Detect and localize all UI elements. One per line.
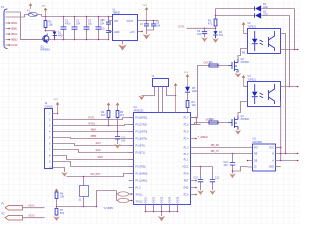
svg-text:10u: 10u bbox=[88, 23, 93, 26]
svg-text:P1.0(AIN0): P1.0(AIN0) bbox=[136, 173, 148, 176]
svg-text:104: 104 bbox=[156, 25, 161, 28]
wire J2-3 to MCU bbox=[57, 125, 134, 126]
svg-text:470u: 470u bbox=[65, 23, 71, 26]
svg-text:DE: DE bbox=[254, 160, 258, 163]
RS485 U5 box bbox=[253, 144, 276, 171]
svg-text:RE: RE bbox=[254, 153, 258, 156]
svg-text:P3.3(INT1): P3.3(INT1) bbox=[136, 138, 148, 141]
ground below Q3 bbox=[235, 130, 241, 135]
svg-text:485A2: 485A2 bbox=[11, 33, 19, 36]
wire J2-9 to MCU bbox=[57, 162, 134, 167]
wire opto U2 pin2 to Q2 drain bbox=[238, 49, 248, 60]
svg-text:5V1: 5V1 bbox=[219, 34, 224, 37]
svg-text:GND: GND bbox=[183, 187, 189, 190]
svg-text:GND5: GND5 bbox=[177, 196, 180, 203]
svg-text:10K: 10K bbox=[60, 196, 65, 199]
optocoupler U3 bbox=[248, 82, 281, 107]
svg-text:P1.2: P1.2 bbox=[184, 153, 190, 156]
svg-text:104: 104 bbox=[100, 23, 105, 26]
wire MCU to gate bus bbox=[191, 124, 201, 126]
power port VCC pullup1 bbox=[108, 105, 110, 109]
svg-text:5K1: 5K1 bbox=[60, 212, 65, 215]
svg-text:GND: GND bbox=[269, 166, 275, 169]
wire LED D2 anode bbox=[261, 8, 294, 10]
svg-text:VCC1: VCC1 bbox=[182, 166, 189, 169]
wire MCU to RS485 RO bbox=[191, 147, 253, 149]
ground VCC caps bbox=[143, 34, 151, 39]
capacitor C5 C6 stack bbox=[108, 17, 110, 40]
capacitor C10 bbox=[200, 167, 202, 191]
svg-text:GND2: GND2 bbox=[153, 196, 156, 203]
svg-text:VIN: VIN bbox=[114, 20, 118, 23]
ground below U1 bbox=[118, 45, 127, 51]
power port VCC reset bbox=[56, 191, 58, 192]
svg-text:102: 102 bbox=[192, 104, 197, 107]
power LED D5 column bbox=[187, 76, 189, 86]
wire MCU P16 step bbox=[191, 118, 197, 125]
MCU bottom pins bbox=[146, 205, 178, 212]
junction reset node bbox=[56, 206, 58, 208]
resistor R5 bbox=[117, 109, 119, 132]
capacitor C7 bbox=[146, 21, 148, 31]
wire opto U2 pin3 out bbox=[281, 49, 298, 51]
capacitor C2 bbox=[74, 17, 76, 40]
svg-text:P3.7(RD): P3.7(RD) bbox=[136, 166, 146, 169]
capacitor C3 bbox=[86, 17, 88, 40]
svg-text:RST: RST bbox=[184, 180, 189, 183]
power port VCC regulator bbox=[146, 9, 148, 20]
svg-text:OUT2: OUT2 bbox=[206, 119, 213, 122]
wire J2-2 to MCU bbox=[57, 118, 134, 120]
svg-text:GND1: GND1 bbox=[145, 196, 148, 203]
ground zener bbox=[212, 38, 218, 43]
svg-text:24V: 24V bbox=[42, 6, 46, 8]
svg-text:P1.4: P1.4 bbox=[184, 138, 190, 141]
node base junction bbox=[45, 30, 47, 32]
ground C14 bbox=[229, 174, 235, 179]
wire to LED D3 bbox=[216, 15, 255, 17]
gate wire channel1 bbox=[191, 66, 229, 118]
ground C10 bbox=[197, 190, 203, 195]
wire J1 pin2 to fuse bbox=[10, 15, 29, 18]
svg-text:C11: C11 bbox=[215, 177, 220, 180]
MCU right pin names bbox=[182, 117, 189, 197]
svg-text:2N7002: 2N7002 bbox=[241, 118, 250, 121]
svg-text:485A1: 485A1 bbox=[11, 22, 19, 25]
ground rail wire bbox=[21, 39, 109, 41]
wire J1 pin1 to ground rail bbox=[10, 12, 43, 40]
svg-text:GND3: GND3 bbox=[161, 196, 164, 203]
svg-text:485_RX: 485_RX bbox=[211, 144, 220, 147]
optocoupler U2 bbox=[248, 29, 281, 54]
fuse F1 bbox=[28, 12, 37, 16]
svg-text:SW_RST: SW_RST bbox=[91, 173, 102, 176]
wire opto U2 pin4 bbox=[281, 34, 286, 154]
svg-text:4K7: 4K7 bbox=[120, 114, 125, 117]
svg-text:VCC: VCC bbox=[184, 72, 189, 74]
RS485 left pin stubs bbox=[248, 161, 253, 168]
ground C11 bbox=[209, 190, 215, 195]
svg-text:471: 471 bbox=[208, 23, 213, 26]
svg-text:P1.2: P1.2 bbox=[136, 187, 142, 190]
svg-text:SW1: SW1 bbox=[96, 142, 102, 145]
capacitor C13 bbox=[117, 132, 119, 145]
svg-text:485B2: 485B2 bbox=[11, 39, 19, 42]
svg-text:104: 104 bbox=[224, 164, 229, 167]
resistor R6 bbox=[55, 192, 58, 199]
transistor Q1 bbox=[43, 36, 49, 42]
capacitor C8 bbox=[153, 21, 155, 31]
ground crystal bbox=[138, 96, 144, 101]
svg-text:P3.5(T1): P3.5(T1) bbox=[136, 152, 146, 155]
wire to LED D2 bbox=[216, 8, 255, 10]
crystal Y2 bbox=[118, 192, 129, 196]
svg-text:P1.6: P1.6 bbox=[184, 124, 190, 127]
power port VCC opto U3 bbox=[243, 77, 245, 86]
capacitor C14 bbox=[232, 153, 234, 155]
svg-text:C10: C10 bbox=[194, 177, 199, 180]
vertical wire LED D2 corner bbox=[294, 9, 296, 50]
24V rail wire bbox=[42, 16, 113, 18]
wire J2-4 to MCU bbox=[57, 131, 134, 133]
svg-text:CON10: CON10 bbox=[45, 105, 54, 108]
button S1 bbox=[80, 186, 89, 197]
svg-text:P3.2(INT0): P3.2(INT0) bbox=[136, 131, 148, 134]
svg-text:AT89C52: AT89C52 bbox=[134, 109, 145, 112]
wire opto U3 pin2 to Q3 drain bbox=[238, 102, 248, 117]
resistor R9 gate1 bbox=[209, 64, 218, 67]
ground J2 bbox=[61, 172, 67, 177]
capacitor C9 bbox=[204, 28, 206, 30]
wire RS485 VCC bracket bbox=[276, 147, 281, 149]
wire J2-5 to MCU bbox=[57, 138, 134, 139]
svg-text:485_TX: 485_TX bbox=[211, 150, 220, 153]
wire LED D3 anode bbox=[261, 15, 289, 17]
svg-text:P1.7: P1.7 bbox=[184, 117, 190, 120]
gate wire channel2 bbox=[191, 123, 229, 125]
svg-text:DI: DI bbox=[254, 166, 257, 169]
junctions VCC rail bbox=[146, 20, 148, 22]
ground below Q2 bbox=[235, 73, 241, 78]
diode D1 bbox=[53, 32, 57, 36]
power port VCC opto U2 bbox=[243, 24, 245, 33]
power port VCC MCU top bbox=[175, 85, 177, 112]
wire reset node bbox=[57, 191, 117, 207]
svg-text:GND: GND bbox=[114, 31, 120, 34]
power port 24V bbox=[45, 10, 47, 17]
capacitor C1 bbox=[63, 17, 65, 40]
svg-text:104: 104 bbox=[121, 139, 126, 142]
MCU left pin stubs bbox=[129, 118, 134, 188]
wire RS485 B line bbox=[276, 153, 298, 155]
svg-text:485B: 485B bbox=[91, 135, 97, 138]
power port VCC J2 bbox=[57, 104, 59, 113]
connector J2 bbox=[45, 109, 53, 169]
ground C9 bbox=[201, 37, 207, 42]
port P1 bbox=[5, 205, 22, 210]
svg-text:P1.1(AIN1): P1.1(AIN1) bbox=[136, 180, 148, 183]
svg-text:104: 104 bbox=[76, 23, 81, 26]
ground reset divider bbox=[53, 216, 59, 221]
resistor R7 bbox=[55, 209, 58, 216]
svg-text:VCC: VCC bbox=[54, 99, 59, 101]
svg-text:+VO: +VO bbox=[130, 31, 135, 34]
ground MCU bottom bbox=[158, 216, 165, 221]
svg-text:T_485EN: T_485EN bbox=[198, 136, 208, 139]
svg-text:RO: RO bbox=[254, 147, 258, 150]
wire MCU to RS485 RE bbox=[191, 153, 253, 155]
capacitor C11 bbox=[212, 167, 214, 191]
svg-text:P3.0(RXD): P3.0(RXD) bbox=[136, 117, 148, 120]
wire RS485 A line bbox=[276, 160, 298, 162]
svg-text:P1.3: P1.3 bbox=[184, 147, 190, 150]
svg-text:XTAL2: XTAL2 bbox=[136, 201, 144, 204]
svg-text:OUT1: OUT1 bbox=[178, 25, 185, 28]
svg-text:485B1: 485B1 bbox=[11, 28, 19, 31]
junction on 24V rail bbox=[45, 16, 47, 18]
svg-text:104: 104 bbox=[197, 33, 202, 36]
power port DC24V bbox=[30, 5, 32, 9]
svg-text:P3.1(TXD): P3.1(TXD) bbox=[136, 124, 147, 127]
wire J2-7 to MCU bbox=[57, 150, 134, 153]
svg-text:TLP521: TLP521 bbox=[248, 78, 257, 81]
resistor R3 bbox=[186, 101, 189, 108]
wire opto U3 pin4 bbox=[281, 86, 298, 88]
svg-text:4K7: 4K7 bbox=[101, 114, 106, 117]
svg-text:TLP521: TLP521 bbox=[248, 25, 257, 28]
svg-text:OUT1: OUT1 bbox=[204, 62, 211, 65]
svg-text:GND4: GND4 bbox=[169, 196, 172, 203]
svg-text:VCC: VCC bbox=[269, 147, 274, 150]
pin end opto U2 pin3 bbox=[297, 49, 299, 51]
svg-text:RST1: RST1 bbox=[89, 117, 96, 120]
svg-text:2N7002: 2N7002 bbox=[241, 61, 250, 64]
wire J2-6 to MCU bbox=[57, 144, 134, 146]
wire caps to ground bbox=[147, 30, 154, 34]
node OUT1 bbox=[215, 28, 217, 30]
zener D4 bbox=[214, 31, 218, 35]
svg-text:KEY2: KEY2 bbox=[29, 214, 36, 217]
resistor R10 gate2 bbox=[209, 121, 218, 124]
svg-text:P3.4(T0): P3.4(T0) bbox=[136, 145, 146, 148]
svg-text:P1.5: P1.5 bbox=[184, 131, 190, 134]
resistor R1 bbox=[45, 17, 47, 31]
svg-text:485A: 485A bbox=[91, 129, 97, 132]
svg-text:KEY1: KEY1 bbox=[29, 204, 36, 207]
resistor R2 bbox=[215, 9, 217, 20]
regulator U1 78M05 bbox=[113, 15, 138, 41]
wire RS485 GND bracket bbox=[276, 166, 281, 168]
junction diode-rail bbox=[54, 39, 56, 41]
crystal module Y1 bbox=[153, 79, 169, 87]
wire MCU decoupling bbox=[191, 166, 213, 168]
wire opto U3 pin3 out bbox=[280, 102, 282, 161]
svg-text:SW3: SW3 bbox=[98, 156, 104, 159]
resistor R4 bbox=[108, 109, 110, 126]
MCU right pin stubs bbox=[191, 118, 196, 195]
junction LED line on pin3 wire bbox=[294, 49, 296, 51]
svg-text:P3.6: P3.6 bbox=[184, 173, 190, 176]
svg-text:P1.1: P1.1 bbox=[184, 159, 190, 162]
svg-text:XTAL1: XTAL1 bbox=[136, 194, 144, 197]
LED D3 bbox=[254, 13, 256, 17]
svg-text:78M05: 78M05 bbox=[113, 12, 121, 15]
port P2 bbox=[5, 215, 22, 220]
svg-text:IRF9540: IRF9540 bbox=[41, 48, 51, 51]
wire fuse to rail bbox=[38, 15, 42, 17]
wire opto U2 pin1 bbox=[244, 33, 248, 35]
MCU U4 box bbox=[134, 113, 191, 205]
power port VCC pullup2 bbox=[117, 105, 119, 109]
svg-text:VOUT: VOUT bbox=[127, 20, 134, 23]
svg-text:LED: LED bbox=[192, 90, 197, 93]
svg-text:RXD1: RXD1 bbox=[89, 123, 96, 126]
ground C13 bbox=[114, 144, 120, 149]
svg-text:SW2: SW2 bbox=[96, 149, 102, 152]
vertical wire LED D3 down bbox=[289, 16, 291, 87]
LED D2 bbox=[254, 6, 256, 10]
wire J2-10 to ground bbox=[57, 168, 65, 173]
svg-text:10K: 10K bbox=[49, 24, 54, 27]
svg-text:Y2 4MHz: Y2 4MHz bbox=[104, 207, 115, 210]
svg-text:MAX485: MAX485 bbox=[253, 141, 263, 144]
wire J2-8 to MCU bbox=[57, 156, 134, 160]
capacitor C4 bbox=[98, 17, 100, 40]
svg-text:P2.0: P2.0 bbox=[184, 194, 190, 197]
svg-text:VCC: VCC bbox=[143, 5, 148, 7]
svg-text:DGND: DGND bbox=[11, 44, 18, 47]
